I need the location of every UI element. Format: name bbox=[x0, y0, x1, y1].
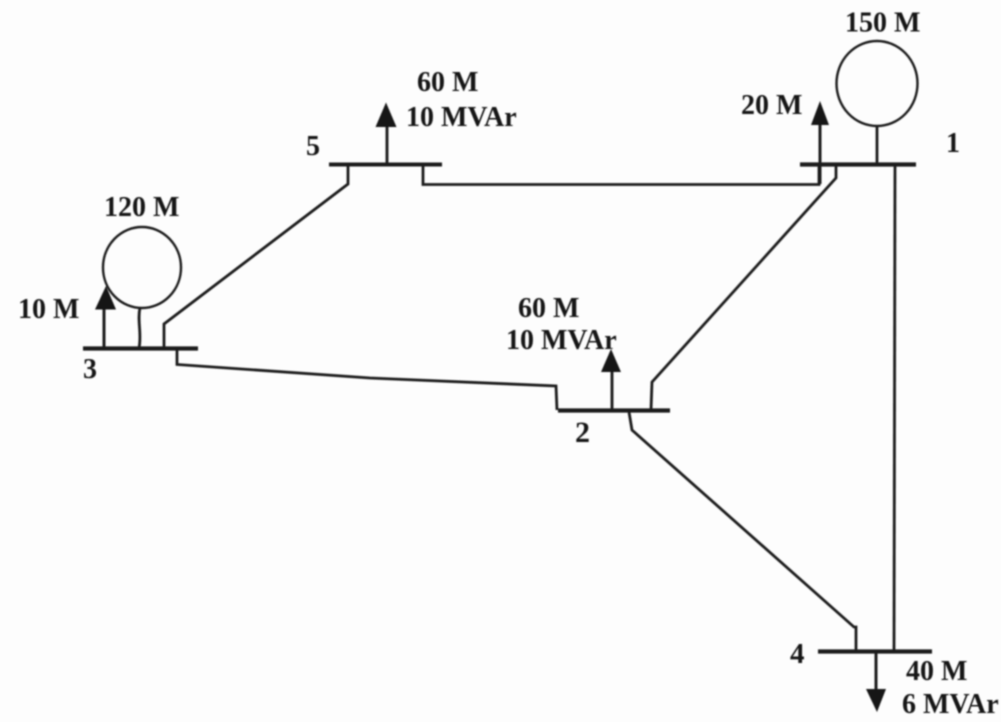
load arrow bus 3 head bbox=[95, 286, 116, 310]
svg-text:40 M: 40 M bbox=[906, 656, 967, 687]
wire line 3-2 bbox=[177, 350, 557, 410]
bus 5 bar bbox=[329, 163, 442, 167]
load arrow bus 3 stem bbox=[103, 309, 106, 348]
svg-text:150 M: 150 M bbox=[845, 8, 920, 39]
svg-text:10 M: 10 M bbox=[18, 294, 79, 325]
load arrow bus 1 stem bbox=[819, 124, 822, 184]
svg-text:6 MVAr: 6 MVAr bbox=[902, 689, 999, 720]
wire line 1-4 bbox=[894, 165, 895, 651]
wire line 5-1 bbox=[423, 165, 819, 185]
load arrow bus 4 stem bbox=[875, 652, 878, 692]
svg-text:10 MVAr: 10 MVAr bbox=[406, 102, 517, 133]
svg-text:4: 4 bbox=[790, 638, 805, 670]
wire generator G3 stem to bus 3 bbox=[139, 308, 140, 348]
load arrow bus 2 head bbox=[601, 349, 621, 372]
bus 2 bar bbox=[558, 408, 670, 412]
load arrow bus 2 stem bbox=[611, 372, 614, 410]
svg-text:10 MVAr: 10 MVAr bbox=[506, 325, 617, 356]
bus 3 bar bbox=[83, 346, 198, 350]
svg-text:3: 3 bbox=[83, 354, 97, 385]
svg-text:20 M: 20 M bbox=[741, 90, 802, 121]
svg-text:1: 1 bbox=[946, 128, 960, 159]
wire generator G1 stem to bus 1 bbox=[876, 126, 879, 164]
bus 1 bar bbox=[800, 162, 916, 166]
generator G1 circle bbox=[837, 41, 918, 126]
svg-text:120 M: 120 M bbox=[104, 192, 179, 223]
load arrow bus 5 stem bbox=[386, 127, 389, 164]
svg-text:60 M: 60 M bbox=[518, 293, 579, 324]
wire line 5-3 bbox=[164, 166, 348, 348]
wire line 2-1 bbox=[651, 165, 836, 410]
load arrow bus 1 head bbox=[811, 101, 829, 125]
svg-text:5: 5 bbox=[306, 131, 320, 162]
wire line 2-4 bbox=[629, 412, 856, 652]
svg-text:2: 2 bbox=[575, 416, 590, 449]
generator G3 circle bbox=[103, 227, 181, 308]
load arrow bus 4 head bbox=[866, 689, 886, 712]
bus 4 bar bbox=[818, 649, 932, 653]
load arrow bus 5 head bbox=[376, 103, 397, 128]
svg-text:60 M: 60 M bbox=[417, 67, 478, 98]
